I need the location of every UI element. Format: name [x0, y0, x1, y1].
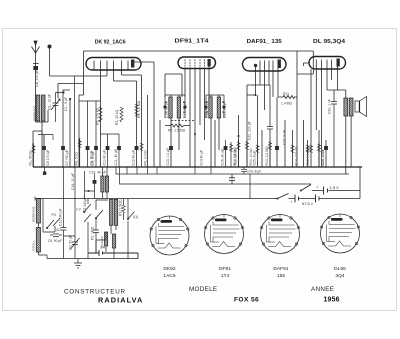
battery B2 cells [295, 195, 319, 203]
svg-text:R3 (1,5kΩ): R3 (1,5kΩ) [118, 200, 122, 216]
wire HT drop [249, 174, 251, 199]
IF transformer T1 [169, 97, 172, 118]
component R1 x33.5 [33, 143, 35, 167]
wire col262 [261, 130, 263, 167]
step ticks [127, 167, 211, 174]
wire y101 link [79, 100, 101, 102]
wire t1-t2 link [165, 74, 182, 97]
svg-text:C22, 5 nF: C22, 5 nF [283, 130, 287, 145]
wire col63 [63, 90, 70, 167]
wire cluster links [43, 226, 75, 259]
svg-text:DAF91: DAF91 [273, 266, 289, 272]
svg-text:DK92: DK92 [163, 266, 176, 272]
svg-text:C2 , 12 pF: C2 , 12 pF [48, 94, 52, 110]
svg-text:1T4: 1T4 [221, 273, 230, 279]
coil L1 antenna [36, 95, 40, 121]
output transformer T3 [344, 98, 348, 116]
svg-text:DF91: DF91 [219, 266, 231, 272]
svg-text:FOX 56: FOX 56 [234, 297, 259, 304]
wire col247 [246, 85, 248, 167]
component C8 x87.5 [87, 101, 89, 167]
wire row B left [35, 198, 278, 200]
component R18 x311 [309, 145, 312, 153]
junction dot [255, 94, 257, 96]
trimmer cap C2 [53, 98, 59, 112]
svg-text:R12, 35 kΩ: R12, 35 kΩ [233, 148, 237, 166]
svg-text:3Q4: 3Q4 [335, 273, 345, 279]
component C6 x44 [43, 135, 45, 168]
socket V3 DAF91 [261, 215, 300, 254]
ground bus main [33, 166, 362, 168]
capacitor C11 [61, 228, 67, 241]
wire row B right [289, 198, 361, 200]
capacitor C5 [50, 234, 62, 237]
wire col141 [122, 75, 142, 141]
capacitor C28 [229, 174, 235, 184]
component C9 x96 [95, 101, 97, 167]
tube U2 envelope DF91 [178, 57, 216, 69]
wire col307 [307, 140, 309, 167]
svg-text:R1, 35 kΩ: R1, 35 kΩ [28, 150, 32, 166]
wire right drop [359, 167, 361, 199]
component R12 x238.5 [238, 140, 240, 167]
resistor R2 [120, 107, 123, 122]
svg-text:C5, 90 pF: C5, 90 pF [48, 239, 62, 243]
component C10 x107.5 [107, 134, 109, 167]
socket V4 DL95 [321, 214, 360, 253]
wire step line3 [120, 167, 312, 184]
component R19 x319 [318, 142, 320, 167]
wire col270 [267, 85, 273, 167]
wire col292 [292, 130, 294, 167]
wire col303 [303, 120, 305, 167]
wire tube3 pins [256, 67, 279, 110]
svg-text:C16, 80 μF: C16, 80 μF [220, 149, 224, 166]
svg-text:C7 +50 μF: C7 +50 μF [65, 150, 69, 166]
svg-text:1,5 V: 1,5 V [330, 185, 340, 190]
switch S3 [96, 210, 103, 218]
component C25 x257.5 [256, 145, 259, 153]
wire col277 [276, 97, 278, 167]
wire col79 [78, 95, 80, 167]
IF transformer T2 [209, 97, 212, 118]
svg-text:C29, 10 nF: C29, 10 nF [321, 149, 325, 166]
svg-text:1956: 1956 [324, 297, 340, 304]
svg-text:C12 40 μF: C12 40 μF [131, 150, 135, 166]
component R13 x270 [269, 140, 271, 167]
svg-text:OSCILL.: OSCILL. [32, 239, 36, 251]
svg-text:C24, 8 μF: C24, 8 μF [247, 170, 262, 174]
switch S2 [84, 204, 91, 222]
component C16 x225.5 [225, 140, 227, 167]
svg-text:DK 92_1AC6: DK 92_1AC6 [95, 40, 127, 46]
component C29 x326 [324, 146, 328, 150]
ground symbol [74, 259, 82, 269]
junction dot A [69, 98, 71, 100]
svg-text:155: 155 [277, 273, 285, 279]
svg-text:C1 , 5 pF: C1 , 5 pF [64, 97, 68, 111]
junction dot B [62, 91, 64, 93]
svg-text:DL95: DL95 [334, 266, 346, 272]
svg-text:R7, 1,5 MΩ: R7, 1,5 MΩ [168, 129, 186, 133]
wire row A [312, 190, 360, 192]
coil L7 [105, 232, 108, 246]
wire tube4 pins [311, 67, 338, 168]
coil L4 below bus [103, 167, 108, 176]
svg-text:C9, 50 pF: C9, 50 pF [91, 151, 95, 166]
socket V1 DK92 [150, 216, 189, 255]
component R10 x247 [246, 140, 248, 167]
wire col238 [238, 115, 240, 167]
wire step line2 [116, 167, 349, 174]
wire col257 [257, 95, 259, 167]
wire transformer legs [346, 90, 351, 174]
switch S4 [128, 212, 135, 220]
svg-text:67,5 v: 67,5 v [302, 201, 313, 206]
svg-text:R4, 10 kΩ: R4, 10 kΩ [144, 150, 148, 166]
component cap x307.5 [306, 145, 309, 153]
svg-text:R14, 100 kΩ: R14, 100 kΩ [295, 146, 299, 165]
coil L5 osc upper [36, 199, 40, 224]
svg-text:1AC6: 1AC6 [163, 273, 176, 279]
svg-text:C18, 80 pF: C18, 80 pF [204, 101, 208, 118]
component R10 x231 [230, 142, 232, 167]
svg-text:DF91_1T4: DF91_1T4 [175, 39, 210, 45]
switch S6 row B [278, 194, 289, 199]
svg-text:C3 140μF: C3 140μF [83, 197, 87, 212]
component cap x277 [275, 146, 279, 150]
wire col326 [325, 140, 327, 167]
wire box feed DL95 [297, 51, 313, 74]
capacitor C13 [93, 222, 99, 240]
battery cell B3 [88, 240, 138, 259]
svg-text:C14 40 μF: C14 40 μF [199, 150, 203, 166]
wire col285 [284, 120, 286, 167]
tube U1 envelope DK92 [86, 58, 141, 71]
wire left column R1 [33, 131, 42, 167]
svg-text:R11: R11 [283, 92, 289, 96]
wire screen bus left drop [79, 51, 84, 95]
svg-text:R5, +70 kΩ: R5, +70 kΩ [96, 107, 100, 125]
tube U3 envelope DAF91 [243, 58, 287, 72]
switch S1 [47, 218, 60, 228]
component C11 x119 [118, 134, 120, 167]
wire col74 [74, 167, 76, 236]
svg-text:CV, 90 pF: CV, 90 pF [68, 235, 72, 250]
wire pin drops tube1 [101, 70, 122, 167]
wire y83 link [58, 84, 84, 99]
wire IFT1 bottoms [171, 118, 179, 167]
ground bus bottom [47, 258, 138, 260]
wire y85 link [247, 84, 270, 86]
svg-text:C13, 0,1 μF: C13, 0,1 μF [166, 148, 170, 166]
resistor R7 horizontal [165, 124, 190, 127]
svg-text:C16, 10 μF: C16, 10 μF [71, 173, 75, 190]
svg-text:R2, 25 kΩ: R2, 25 kΩ [115, 109, 119, 125]
svg-text:C11, 40 μF: C11, 40 μF [114, 149, 118, 166]
component R6 x79.7 [79, 138, 81, 167]
svg-text:ANNEE: ANNEE [311, 286, 334, 293]
svg-text:3 A: 3 A [100, 246, 106, 250]
svg-text:MODELE: MODELE [189, 286, 217, 293]
component C7 x63 [61, 146, 65, 150]
svg-text:R13, 2,2 MΩ: R13, 2,2 MΩ [265, 146, 269, 166]
svg-text:C16, 80 pF: C16, 80 pF [164, 101, 168, 118]
svg-text:C20, 100 pF: C20, 100 pF [248, 121, 252, 140]
wire IFT2 bottoms [211, 118, 219, 167]
wire plate link tube1 [135, 62, 155, 167]
wire col136 [114, 81, 137, 167]
trimmer C3 [72, 236, 78, 250]
svg-text:P2, 1MΩ: P2, 1MΩ [90, 226, 94, 240]
wire col297 [296, 74, 298, 167]
svg-text:DAF91_ 135: DAF91_ 135 [247, 39, 283, 45]
svg-text:GO: GO [56, 228, 61, 232]
svg-text:CONSTRUCTEUR: CONSTRUCTEUR [64, 289, 126, 296]
svg-text:1,4 MΩ: 1,4 MΩ [281, 102, 292, 106]
component R14 x292.5 [291, 145, 294, 153]
wire col63b [63, 167, 65, 228]
capacitor C30 [331, 102, 337, 168]
wire y134 elbow [101, 133, 120, 135]
svg-text:C15, 40 μF: C15, 40 μF [89, 171, 106, 175]
antenna [32, 45, 40, 53]
svg-text:C19, 80 pF: C19, 80 pF [223, 101, 227, 118]
wire avc dashed [171, 120, 195, 122]
wire osc coil bottom [36, 110, 49, 167]
svg-text:C10 40 μF: C10 40 μF [102, 150, 106, 166]
wire col70 [69, 99, 71, 167]
wire tick col147 [147, 95, 149, 167]
component cap x74.5 [74, 76, 76, 167]
svg-text:R6, 5 kΩ: R6, 5 kΩ [75, 152, 79, 166]
socket V2 DF91 [205, 215, 244, 254]
resistor R11 horizontal [278, 96, 297, 99]
component R4 x141.5 [141, 141, 143, 167]
svg-text:RADIALVA: RADIALVA [98, 296, 143, 305]
capacitor C15 below bus [93, 180, 97, 184]
svg-text:C17, 80 pF: C17, 80 pF [183, 101, 187, 118]
svg-text:I(1): I(1) [133, 215, 138, 219]
wire col160 [159, 120, 161, 167]
speaker LS [355, 101, 359, 112]
svg-text:CA_100 pF: CA_100 pF [35, 70, 39, 87]
wire col319 [318, 130, 320, 167]
svg-text:C6 100 μF: C6 100 μF [46, 150, 50, 166]
svg-text:C30, 1 nF: C30, 1 nF [328, 99, 332, 114]
junction square [43, 172, 46, 175]
svg-text:C25, 8 μF: C25, 8 μF [252, 151, 256, 166]
svg-text:BOBINAGE: BOBINAGE [32, 105, 36, 121]
earth terminal [48, 45, 52, 49]
switch S5 row A [301, 185, 311, 191]
svg-text:DL 95,3Q4: DL 95,3Q4 [313, 39, 346, 45]
component C13 x171 [169, 146, 173, 150]
battery B1 [324, 187, 328, 195]
coil L5 osc lower [36, 228, 40, 253]
svg-text:BOBINAGE: BOBINAGE [32, 206, 36, 222]
wire y134 C6 feed [38, 135, 53, 147]
wire screen bus top [84, 50, 314, 52]
wire transformer feed [327, 90, 346, 102]
capacitor CA antenna series [33, 66, 38, 70]
resistor R5 [99, 107, 102, 122]
wire tube2 pins [185, 67, 209, 168]
wire y95 link [247, 94, 256, 96]
svg-text:R5, 1,2 MΩ: R5, 1,2 MΩ [137, 100, 141, 118]
tube U4 envelope DL95 [309, 57, 346, 70]
resistor R3 [122, 205, 125, 213]
resistor R5b on col136 [135, 104, 138, 116]
capacitor C24 on line2 [241, 167, 247, 174]
component C12 x136.5 [135, 146, 139, 150]
svg-text:R18 0,5 MΩ: R18 0,5 MΩ [306, 147, 310, 166]
coil L6 [110, 199, 113, 225]
wire grid cap DK92 [50, 75, 108, 77]
svg-text:PO: PO [52, 213, 57, 217]
svg-text:C11 140 μF: C11 140 μF [59, 208, 63, 226]
wire col215 [214, 120, 216, 167]
